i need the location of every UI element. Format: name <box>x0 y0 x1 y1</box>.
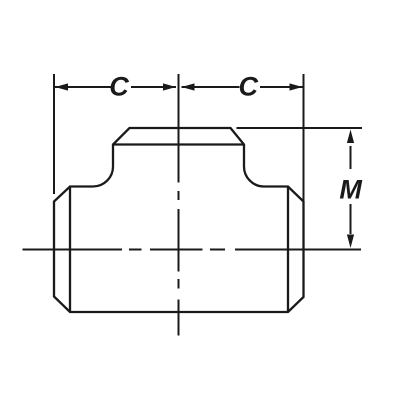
svg-text:C: C <box>109 72 129 102</box>
svg-text:M: M <box>339 175 362 205</box>
svg-text:C: C <box>238 72 258 102</box>
